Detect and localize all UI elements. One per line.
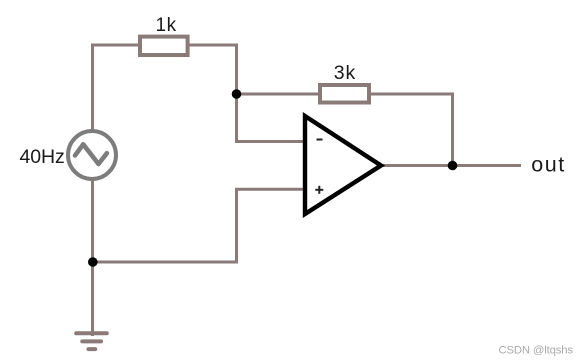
svg-text:CSDN @ltqshs: CSDN @ltqshs <box>499 344 574 356</box>
svg-text:40Hz: 40Hz <box>20 146 65 168</box>
svg-text:1k: 1k <box>156 15 177 36</box>
svg-text:3k: 3k <box>334 62 356 84</box>
svg-text:out: out <box>531 153 565 177</box>
